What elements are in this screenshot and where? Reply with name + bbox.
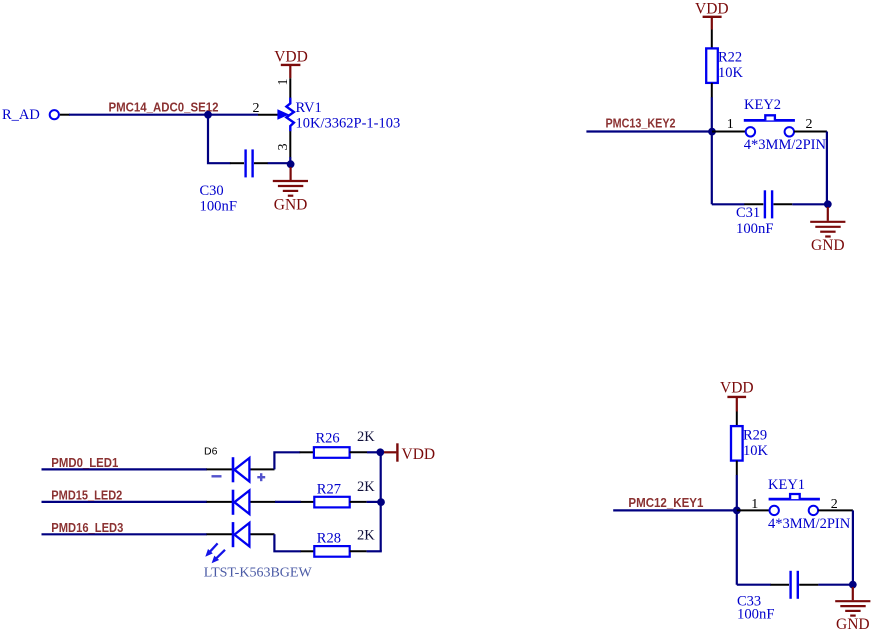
wire R22 to junction down to C31 row (711, 97, 713, 204)
wire C30 to node (268, 162, 288, 164)
pin 3 (black) of RV1 (289, 131, 291, 157)
pin (black) left of C30 (230, 162, 244, 164)
junction node (204, 111, 212, 119)
svg-text:1: 1 (276, 79, 291, 86)
wire LED2 to R27 (275, 501, 301, 503)
svg-text:PMD0_LED1: PMD0_LED1 (51, 455, 118, 470)
pin (black) R29 top (736, 412, 738, 427)
capacitor C30 plates (246, 149, 253, 177)
junction node R27 (377, 498, 385, 506)
svg-text:GND: GND (836, 616, 870, 633)
svg-text:10K: 10K (718, 65, 744, 81)
svg-text:R22: R22 (718, 50, 742, 66)
svg-text:10K/3362P-1-103: 10K/3362P-1-103 (296, 116, 401, 132)
svg-text:GND: GND (274, 197, 308, 214)
wire C31 to right node (792, 203, 827, 205)
pin (black) left of C31 (744, 203, 763, 205)
pin (black) right of R26 (350, 451, 367, 453)
LED D6-A diode (233, 457, 249, 482)
svg-text:VDD: VDD (402, 446, 436, 463)
svg-text:4*3MM/2PIN: 4*3MM/2PIN (744, 137, 827, 153)
LED D6-B diode (233, 490, 249, 515)
pin (black) left of R28 (301, 550, 315, 552)
wire net PMD0_LED1 (42, 468, 208, 470)
svg-text:1: 1 (751, 497, 758, 512)
junction node C31 right (824, 200, 832, 208)
wire C33 to right node (818, 584, 853, 586)
wire junction down from node to C30 row (208, 115, 231, 164)
VDD power symbol (top-left) (274, 49, 308, 78)
switch KEY2 contacts (746, 127, 755, 136)
svg-text:PMC12_KEY1: PMC12_KEY1 (628, 495, 703, 510)
svg-text:10K: 10K (743, 443, 769, 459)
pin (black) R29 bottom (736, 461, 738, 476)
wire LED1 to R26 (274, 452, 300, 469)
svg-text:100nF: 100nF (736, 221, 774, 237)
wire R27 to bus node (367, 501, 381, 503)
svg-text:VDD: VDD (720, 380, 754, 397)
minus mark (212, 475, 222, 477)
svg-text:R28: R28 (317, 530, 341, 546)
svg-text:2K: 2K (357, 528, 375, 544)
svg-text:GND: GND (811, 237, 845, 254)
svg-text:KEY2: KEY2 (744, 97, 781, 113)
wire KEY2 right down to C31 row (826, 132, 828, 205)
pin 1 (black) of KEY1 (737, 509, 770, 511)
pin 2 (black) of RV1 (258, 114, 278, 116)
ground GND (top-left) (273, 167, 308, 214)
resistor R27 body (314, 497, 349, 508)
wire net PMC12_KEY1 (613, 509, 737, 511)
svg-text:PMD15_LED2: PMD15_LED2 (51, 487, 122, 502)
resistor R28 body (314, 546, 349, 557)
LED D6-B pins (black) (207, 501, 233, 503)
wire C31 row left (712, 203, 745, 205)
svg-text:2: 2 (253, 101, 260, 116)
switch KEY2 bar and button (744, 119, 795, 122)
svg-text:R29: R29 (743, 428, 767, 444)
plus mark (257, 473, 265, 481)
svg-text:R_AD: R_AD (2, 107, 40, 123)
svg-text:PMC14_ADC0_SE12: PMC14_ADC0_SE12 (109, 100, 219, 115)
pin 2 (black) of KEY1 (818, 509, 853, 511)
wire KEY1 right down to C33 row (852, 510, 854, 584)
pin (black) left of R26 (300, 451, 314, 453)
capacitor C33 plates (791, 571, 798, 599)
ground GND (top-right) (810, 207, 845, 254)
svg-text:R26: R26 (316, 430, 340, 446)
svg-text:2K: 2K (357, 479, 375, 495)
VDD power symbol (top-right) (695, 1, 729, 30)
svg-text:100nF: 100nF (200, 199, 238, 215)
svg-text:LTST-K563BGEW: LTST-K563BGEW (204, 566, 313, 581)
LED light arrows (205, 543, 225, 563)
pin 1 (black) of KEY2 (712, 131, 746, 133)
junction node at pot bottom (287, 160, 295, 168)
pin (black) R22 top (711, 30, 713, 49)
switch KEY1 contacts (770, 506, 779, 515)
capacitor C31 plates (765, 190, 772, 218)
wire C33 row left (737, 584, 771, 586)
wire LED3 to R28 (274, 534, 301, 551)
VDD power symbol (bar style) (384, 443, 435, 463)
pin (black) right of C31 (774, 203, 793, 205)
svg-text:PMC13_KEY2: PMC13_KEY2 (606, 115, 676, 130)
terminal circle R_AD (50, 110, 59, 119)
resistor R26 body (314, 447, 350, 458)
switch KEY1 bar and button (769, 498, 820, 501)
wire net PMC13_KEY2 (586, 130, 712, 132)
svg-text:C30: C30 (200, 183, 224, 199)
pin (black) right of C33 (799, 584, 818, 586)
pin (black) right of R27 (350, 501, 367, 503)
LED D6-C pins (black) (207, 533, 233, 535)
junction node key1 row (733, 507, 741, 515)
wire net PMC14_ADC0_SE12 (69, 114, 258, 116)
junction node key row (708, 128, 716, 136)
wire R29 down to C33 row (736, 475, 738, 585)
svg-text:2: 2 (806, 117, 813, 132)
svg-text:PMD16_LED3: PMD16_LED3 (51, 520, 123, 535)
svg-text:D6: D6 (204, 445, 218, 457)
svg-text:KEY1: KEY1 (768, 477, 805, 493)
svg-text:2K: 2K (357, 429, 375, 445)
potentiometer RV1 zigzag (286, 98, 294, 132)
junction node R26 (376, 448, 384, 456)
pin (black) right of R28 (350, 550, 367, 552)
pin (black) right of C30 (254, 162, 268, 164)
svg-text:R27: R27 (317, 482, 341, 498)
junction node C33 right (849, 581, 857, 589)
pin (black) left of R27 (301, 501, 315, 503)
resistor R22 body (706, 48, 718, 83)
svg-text:3: 3 (276, 144, 291, 151)
ground GND (bottom-right) (835, 587, 870, 633)
wire net PMD16_LED3 (42, 533, 208, 535)
svg-text:4*3MM/2PIN: 4*3MM/2PIN (768, 516, 851, 532)
svg-text:C31: C31 (736, 205, 760, 221)
svg-text:1: 1 (727, 117, 734, 132)
wire pot pin3 to node (289, 157, 291, 164)
pin 1 (black) of RV1 (289, 78, 291, 98)
wiper arrow of RV1 (277, 109, 289, 120)
svg-text:VDD: VDD (274, 49, 308, 66)
wire R26 to bus node (367, 451, 381, 453)
VDD power symbol (bottom-right) (720, 380, 754, 412)
pin (black) R22 bottom (711, 83, 713, 98)
pin 2 (black) of KEY2 (794, 131, 827, 133)
svg-text:100nF: 100nF (737, 607, 775, 623)
pin (black) from terminal (60, 114, 70, 116)
wire net PMD15_LED2 (42, 501, 208, 503)
pin (black) left of C33 (771, 584, 790, 586)
wire R28 to bus corner (367, 550, 382, 552)
svg-text:VDD: VDD (695, 1, 729, 18)
svg-text:RV1: RV1 (296, 100, 322, 116)
LED D6-A pins (black) (207, 468, 233, 470)
resistor R29 body (731, 426, 743, 461)
wire bus vertical (380, 452, 382, 551)
LED D6-C diode (233, 522, 249, 547)
